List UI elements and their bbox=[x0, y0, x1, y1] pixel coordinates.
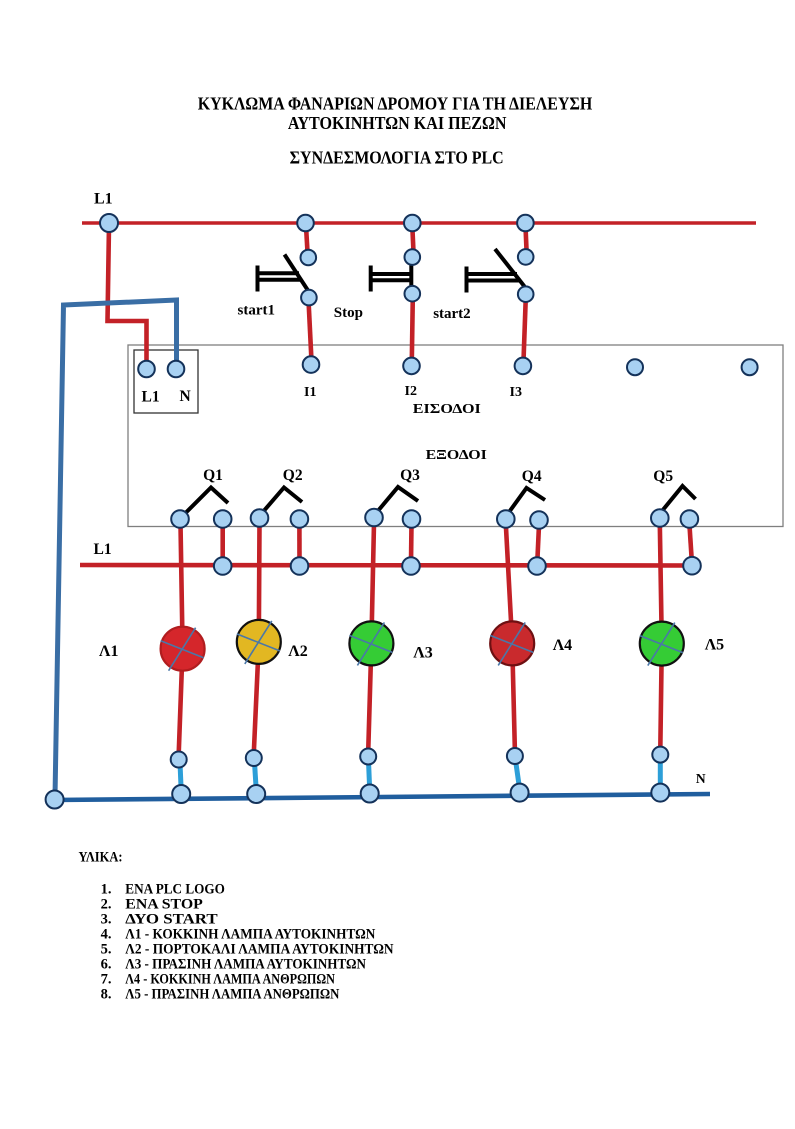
svg-text:ΔΥΟ START: ΔΥΟ START bbox=[125, 911, 218, 927]
contact Q3 bbox=[377, 487, 418, 512]
svg-text:ΕΞΟΔΟΙ: ΕΞΟΔΟΙ bbox=[426, 448, 487, 463]
materials list bbox=[101, 881, 394, 1002]
wire N blue run (terminal N up, left, down to N bus) bbox=[55, 300, 177, 797]
svg-text:Λ4 - ΚΟΚΚΙΝΗ ΛΑΜΠΑ ΑΝΘΡΩΠΩΝ: Λ4 - ΚΟΚΚΙΝΗ ΛΑΜΠΑ ΑΝΘΡΩΠΩΝ bbox=[125, 972, 335, 988]
node L1 bus junction Q5 bbox=[683, 557, 701, 575]
svg-text:I1: I1 bbox=[304, 385, 316, 400]
node N bus junction 4 bbox=[511, 784, 529, 802]
wire L1 lower bus bbox=[80, 563, 694, 568]
svg-text:start1: start1 bbox=[238, 303, 276, 319]
svg-text:1.: 1. bbox=[101, 881, 112, 897]
PLC terminal box L1 N bbox=[134, 350, 198, 413]
node lamp3 lower bbox=[360, 749, 376, 765]
svg-text:L1: L1 bbox=[94, 191, 113, 208]
node start1 top bbox=[301, 250, 317, 266]
wire Q4 right stub to L1 bus bbox=[537, 525, 539, 562]
svg-text:Λ4: Λ4 bbox=[553, 637, 572, 654]
svg-text:Λ2 - ΠΟΡΤΟΚΑΛΙ ΛΑΜΠΑ ΑΥΤΟΚΙΝΗΤ: Λ2 - ΠΟΡΤΟΚΑΛΙ ΛΑΜΠΑ ΑΥΤΟΚΙΝΗΤΩΝ bbox=[125, 942, 394, 958]
wire lamp1 drop to N bus bbox=[180, 763, 181, 791]
node Q1 left bbox=[171, 510, 189, 528]
svg-text:Λ1 - ΚΟΚΚΙΝΗ ΛΑΜΠΑ ΑΥΤΟΚΙΝΗΤΩΝ: Λ1 - ΚΟΚΚΙΝΗ ΛΑΜΠΑ ΑΥΤΟΚΙΝΗΤΩΝ bbox=[125, 926, 376, 942]
node lamp1 lower bbox=[171, 752, 187, 768]
lamp L1 red bbox=[161, 627, 205, 671]
svg-text:Λ2: Λ2 bbox=[288, 643, 307, 660]
node Stop bottom bbox=[405, 286, 421, 302]
node Q1 right bbox=[214, 510, 232, 528]
svg-text:6.: 6. bbox=[101, 957, 112, 973]
svg-text:Q2: Q2 bbox=[283, 467, 303, 484]
svg-text:Λ5 - ΠΡΑΣΙΝΗ ΛΑΜΠΑ ΑΝΘΡΩΠΩΝ: Λ5 - ΠΡΑΣΙΝΗ ΛΑΜΠΑ ΑΝΘΡΩΠΩΝ bbox=[125, 987, 340, 1003]
svg-text:Q1: Q1 bbox=[203, 467, 223, 484]
contact Q4 bbox=[508, 488, 545, 514]
svg-text:Λ1: Λ1 bbox=[99, 643, 118, 660]
node input I2 bbox=[403, 358, 420, 375]
node input I1 bbox=[303, 356, 320, 373]
node Q4 left bbox=[497, 510, 515, 528]
node start1 bottom bbox=[301, 290, 317, 306]
node L1 bus tap bbox=[100, 214, 118, 232]
svg-text:Λ5: Λ5 bbox=[705, 636, 724, 653]
svg-text:5.: 5. bbox=[101, 942, 112, 958]
node lamp2 lower bbox=[246, 750, 262, 766]
wire start1 stub from bus bbox=[306, 226, 308, 252]
svg-text:Q3: Q3 bbox=[400, 467, 420, 484]
node Q2 right bbox=[291, 510, 309, 528]
node L1 bus junction Q4 bbox=[528, 557, 546, 575]
wire Q3 right stub to L1 bus bbox=[409, 524, 414, 562]
svg-text:Λ3 - ΠΡΑΣΙΝΗ ΛΑΜΠΑ ΑΥΤΟΚΙΝΗΤΩΝ: Λ3 - ΠΡΑΣΙΝΗ ΛΑΜΠΑ ΑΥΤΟΚΙΝΗΤΩΝ bbox=[125, 957, 366, 973]
svg-text:ΥΛΙΚΑ:: ΥΛΙΚΑ: bbox=[79, 850, 123, 866]
node input spare 1 bbox=[627, 359, 643, 375]
node bus tap start2 bbox=[517, 215, 534, 232]
svg-text:8.: 8. bbox=[101, 987, 112, 1003]
svg-text:ΚΥΚΛΩΜΑ ΦΑΝΑΡΙΩΝ ΔΡΟΜΟΥ ΓΙΑ ΤΗ: ΚΥΚΛΩΜΑ ΦΑΝΑΡΙΩΝ ΔΡΟΜΟΥ ΓΙΑ ΤΗ ΔΙΕΛΕΥΣΗ bbox=[198, 93, 593, 113]
wire Stop stub from bus bbox=[412, 226, 413, 252]
wire Q2 to lamp L2 to node bbox=[254, 523, 260, 753]
contact Q5 bbox=[662, 486, 696, 511]
lamp L4 red bbox=[490, 621, 534, 665]
lamp L5 green bbox=[640, 622, 684, 666]
node bus tap Stop bbox=[404, 215, 421, 232]
svg-text:N: N bbox=[180, 388, 191, 405]
node lamp4 lower bbox=[507, 748, 523, 764]
node N bus left corner bbox=[46, 791, 64, 809]
svg-text:ΣΥΝΔΕΣΜΟΛΟΓΙΑ ΣΤΟ PLC: ΣΥΝΔΕΣΜΟΛΟΓΙΑ ΣΤΟ PLC bbox=[290, 148, 504, 168]
svg-text:I3: I3 bbox=[510, 385, 522, 400]
wire L1 feed to PLC terminal bbox=[108, 225, 147, 364]
node L1 bus junction Q1 bbox=[214, 557, 232, 575]
svg-text:3.: 3. bbox=[101, 911, 112, 927]
node N bus junction 1 bbox=[172, 785, 190, 803]
wire start1 to I1 bbox=[309, 300, 312, 361]
svg-text:N: N bbox=[696, 771, 706, 786]
wire Q1 to lamp L1 to node bbox=[179, 524, 183, 754]
svg-text:Λ3: Λ3 bbox=[413, 644, 432, 661]
PLC box bbox=[128, 345, 783, 527]
node Q3 right bbox=[403, 510, 421, 528]
svg-text:Q4: Q4 bbox=[522, 468, 542, 485]
node lamp5 lower bbox=[652, 747, 668, 763]
contact Q1 bbox=[183, 488, 228, 516]
node L1 bus junction Q2 bbox=[291, 557, 309, 575]
wire Q1 right stub to L1 bus bbox=[220, 524, 225, 562]
node Q5 left bbox=[651, 509, 669, 527]
svg-text:I2: I2 bbox=[405, 384, 417, 399]
svg-text:start2: start2 bbox=[433, 306, 471, 322]
svg-text:ΑΥΤΟΚΙΝΗΤΩΝ ΚΑΙ ΠΕΖΩΝ: ΑΥΤΟΚΙΝΗΤΩΝ ΚΑΙ ΠΕΖΩΝ bbox=[288, 113, 507, 133]
svg-text:Stop: Stop bbox=[334, 305, 363, 321]
wire Q5 to lamp L5 to node bbox=[660, 523, 662, 750]
node bus tap start1 bbox=[297, 215, 314, 232]
svg-text:ΕΙΣΟΔΟΙ: ΕΙΣΟΔΟΙ bbox=[413, 402, 481, 417]
svg-text:L1: L1 bbox=[94, 541, 112, 558]
node start2 top bbox=[518, 249, 534, 265]
node N bus junction 3 bbox=[361, 785, 379, 803]
node terminal N bbox=[168, 361, 185, 378]
svg-text:7.: 7. bbox=[101, 972, 112, 988]
switch start1 (NO pushbutton) bbox=[258, 255, 309, 292]
node N bus junction 5 bbox=[651, 784, 669, 802]
svg-text:ΕΝΑ PLC LOGO: ΕΝΑ PLC LOGO bbox=[125, 881, 225, 897]
node input I3 bbox=[515, 358, 532, 375]
wire Stop to I2 bbox=[412, 297, 413, 361]
svg-text:4.: 4. bbox=[101, 926, 112, 942]
node Q2 left bbox=[251, 509, 269, 527]
node terminal L1 bbox=[138, 361, 155, 378]
svg-text:ΕΝΑ STOP: ΕΝΑ STOP bbox=[125, 896, 203, 912]
wire lamp5 drop to N bus bbox=[658, 759, 663, 789]
wire Q3 to lamp L3 to node bbox=[368, 523, 374, 752]
lamp L2 orange bbox=[237, 620, 281, 664]
node L1 bus junction Q3 bbox=[402, 557, 420, 575]
wire L1 top bus bbox=[82, 221, 756, 225]
node Q3 left bbox=[365, 509, 383, 527]
svg-text:L1: L1 bbox=[142, 389, 160, 406]
node input spare 2 bbox=[742, 359, 758, 375]
node start2 bottom bbox=[518, 286, 534, 302]
node Q4 right bbox=[530, 511, 548, 529]
wire lamp3 drop to N bus bbox=[369, 761, 370, 790]
lamp L3 green bbox=[349, 621, 393, 665]
title bbox=[198, 93, 593, 167]
wire Q5 right stub to L1 bus bbox=[689, 524, 691, 561]
wire start2 stub from bus bbox=[526, 226, 527, 252]
svg-text:2.: 2. bbox=[101, 896, 112, 912]
svg-text:Q5: Q5 bbox=[653, 468, 673, 485]
wire lamp2 drop to N bus bbox=[255, 762, 257, 790]
switch Stop (NC pushbutton) bbox=[371, 263, 412, 292]
wire Q4 to lamp L4 to node bbox=[506, 524, 515, 751]
node Q5 right bbox=[681, 510, 699, 528]
node Stop top bbox=[405, 249, 421, 265]
wire lamp4 drop to N bus bbox=[516, 760, 520, 789]
wire Q2 right stub to L1 bus bbox=[297, 524, 302, 562]
contact Q2 bbox=[262, 488, 302, 514]
wire N bottom bus bbox=[53, 794, 710, 800]
switch start2 (NO pushbutton) bbox=[467, 249, 525, 293]
wire start2 to I3 bbox=[524, 297, 526, 361]
node N bus junction 2 bbox=[247, 785, 265, 803]
